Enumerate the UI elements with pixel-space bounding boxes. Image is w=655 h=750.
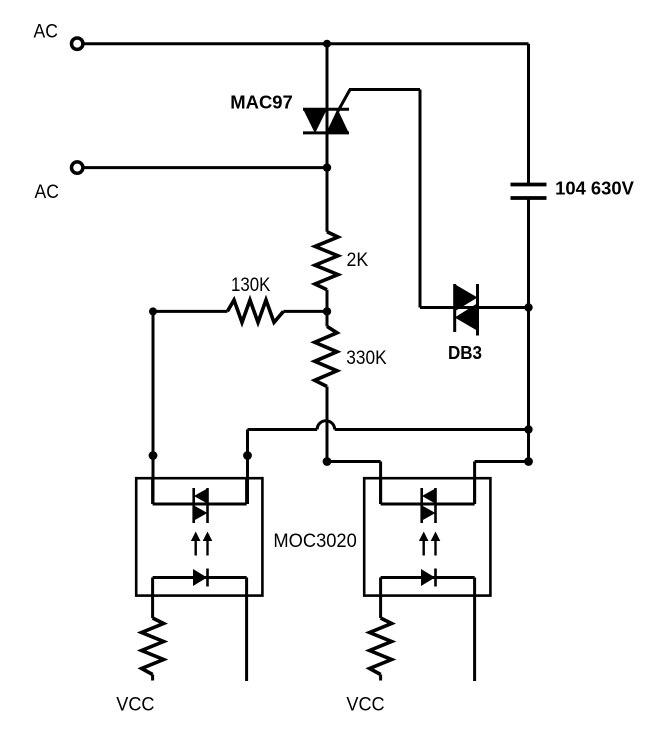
svg-text:VCC: VCC [116, 694, 154, 715]
svg-text:MAC97: MAC97 [230, 92, 292, 112]
svg-text:2K: 2K [347, 250, 369, 271]
svg-text:MOC3020: MOC3020 [273, 531, 356, 552]
svg-text:AC: AC [34, 22, 58, 43]
svg-text:AC: AC [35, 182, 59, 203]
svg-text:DB3: DB3 [448, 343, 482, 363]
svg-text:130K: 130K [231, 275, 271, 296]
svg-text:330K: 330K [346, 348, 387, 369]
svg-text:104 630V: 104 630V [555, 178, 634, 199]
svg-text:VCC: VCC [346, 695, 384, 716]
